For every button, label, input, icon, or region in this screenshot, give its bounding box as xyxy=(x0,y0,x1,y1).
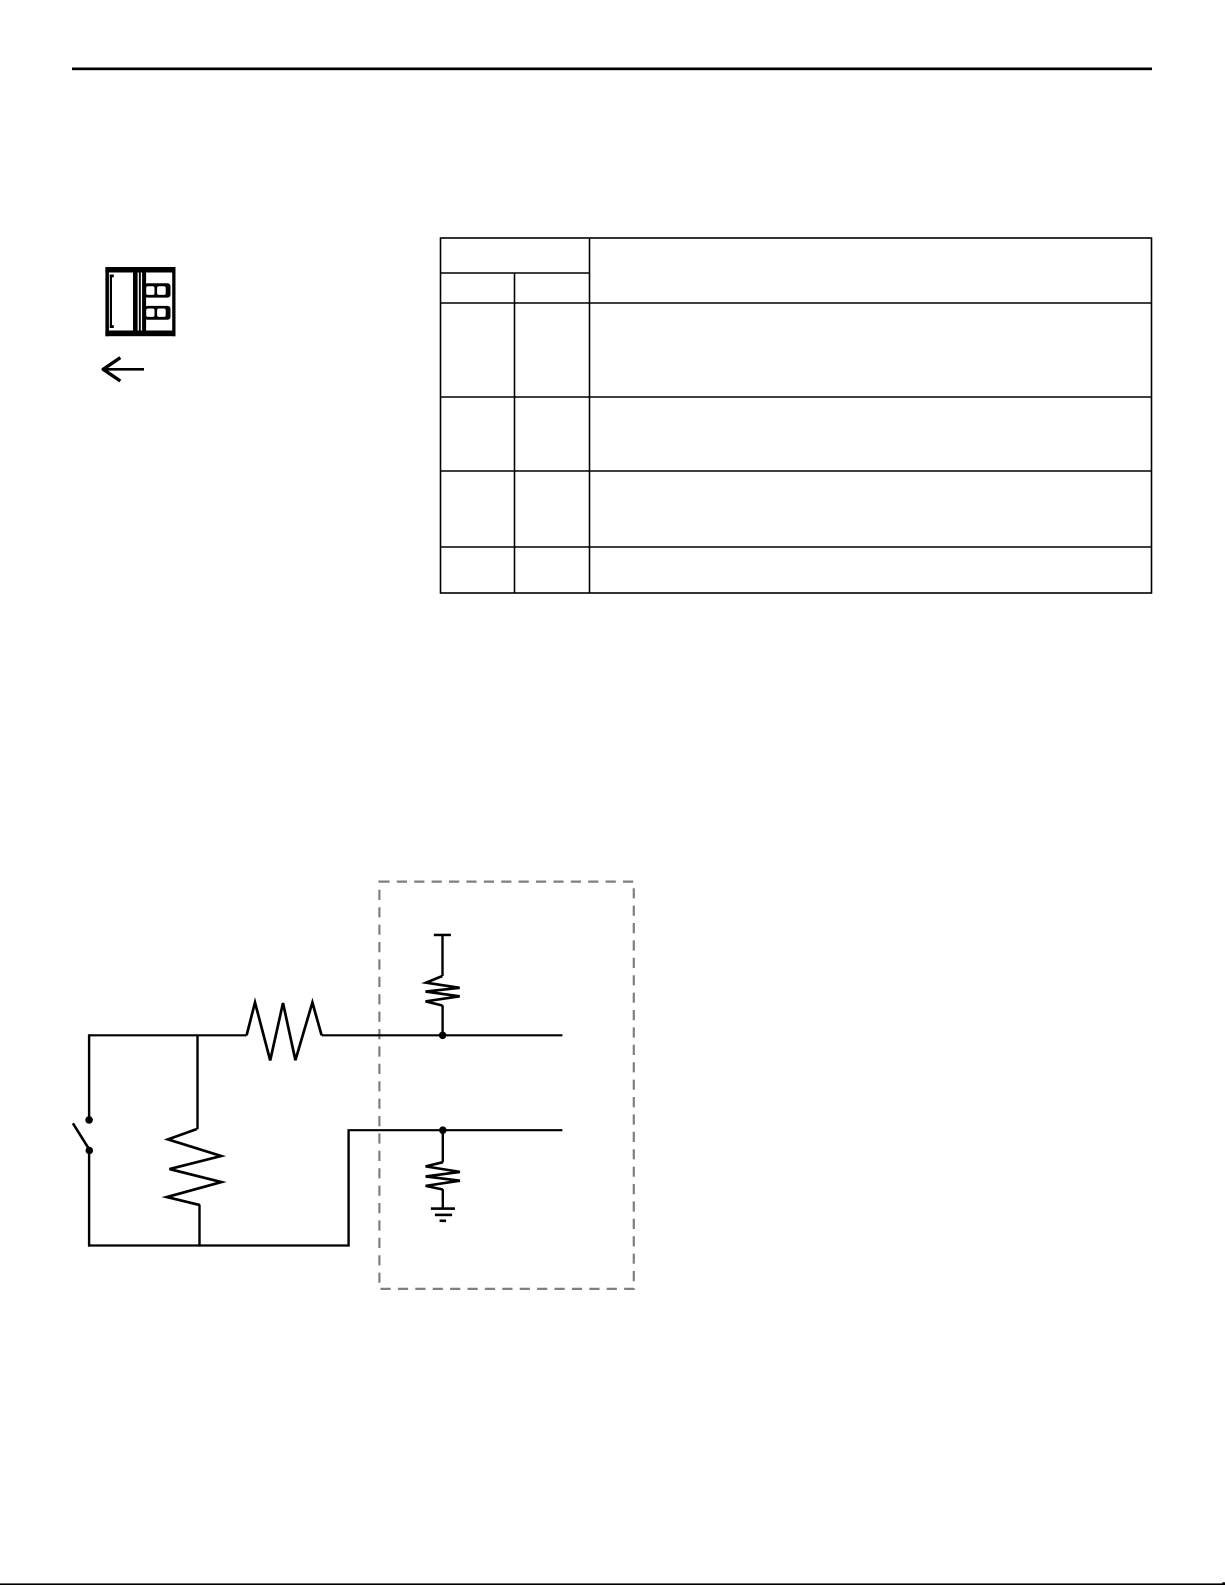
wire bottom rail xyxy=(88,1244,349,1246)
resistor R4 (pull-down, in box) xyxy=(426,1162,460,1189)
node junction top rail xyxy=(439,1032,447,1040)
resistor R2 (vertical, parallel) xyxy=(167,1129,222,1205)
wire top rail left segment xyxy=(89,1034,247,1036)
wire left drop below switch xyxy=(88,1151,90,1247)
resistor R1 (horizontal) xyxy=(247,1003,322,1061)
node junction second rail xyxy=(439,1126,447,1134)
power bar (pull-up supply) xyxy=(434,934,451,937)
wire left drop to switch xyxy=(88,1034,90,1120)
wire R2 bottom lead xyxy=(198,1205,200,1247)
arrow (wire insertion direction) xyxy=(103,358,144,381)
wire pull-down top lead xyxy=(442,1130,444,1162)
switch S1 blade xyxy=(73,1123,89,1149)
wire pull-up top lead xyxy=(441,935,443,976)
wire second rail xyxy=(348,1129,563,1131)
wire top rail right segment xyxy=(322,1034,563,1036)
wire branch drop from top rail xyxy=(196,1035,198,1129)
ground xyxy=(431,1207,455,1222)
wire pull-up bottom lead xyxy=(441,1005,443,1035)
footer rule xyxy=(0,1583,1225,1585)
table (pin assignment, empty cells) xyxy=(441,238,1152,593)
wire step up to second rail xyxy=(347,1130,349,1246)
switch S1 contact node lower xyxy=(86,1147,94,1155)
connector J1 (2-pos terminal block side view) xyxy=(105,267,175,336)
wire pull-down bottom lead xyxy=(442,1189,444,1208)
dashed box (device internal boundary) xyxy=(379,882,633,1289)
resistor R3 (pull-up, in box) xyxy=(426,976,460,1006)
header rule xyxy=(72,68,1152,71)
switch S1 contact node upper xyxy=(85,1116,93,1124)
